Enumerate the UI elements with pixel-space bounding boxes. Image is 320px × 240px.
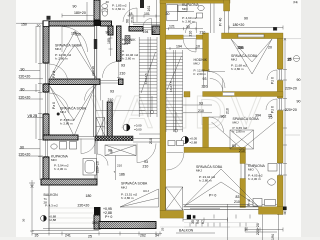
svg-text:MIO: MIO (248, 168, 254, 172)
svg-text:h: 2,60 m: h: 2,60 m (112, 7, 125, 11)
party wall dim line (156, 0, 158, 29)
left exterior wall seg3 (43, 114, 49, 139)
corner box top-left (43, 21, 49, 27)
svg-text:67: 67 (201, 220, 205, 224)
balcony sliding doors bottom (184, 207, 259, 210)
svg-text:210: 210 (198, 109, 204, 113)
svg-text:MKJ: MKJ (55, 47, 62, 51)
top wall right piece (101, 21, 112, 26)
balcony door swing bottom bedroom (185, 169, 259, 206)
right exterior wall seg2 (277, 81, 283, 99)
interior wall top from party (166, 35, 184, 39)
svg-text:194: 194 (143, 30, 149, 34)
svg-text:25: 25 (269, 115, 273, 119)
svg-text:h: 2,30 m: h: 2,30 m (248, 177, 261, 181)
svg-text:210: 210 (120, 72, 126, 76)
svg-text:MKJ: MKJ (122, 42, 129, 46)
right apt bedroom1 door arc (209, 72, 226, 89)
mid horizontal wall (203, 92, 283, 97)
right vertical dim (284, 38, 286, 215)
svg-text:16x17,5: 16x17,5 (144, 73, 148, 84)
corner block top (94, 19, 101, 26)
right wall window arcs (267, 70, 277, 80)
svg-text:MKJ: MKJ (194, 62, 201, 66)
small black squares (47, 16, 51, 20)
svg-text:210: 210 (130, 17, 134, 23)
kupaona top wall left (43, 135, 78, 140)
level marker 2 (181, 136, 188, 143)
right exterior wall seg3 (277, 111, 283, 164)
svg-text:210: 210 (226, 108, 230, 114)
top middle vertical wall (94, 0, 100, 20)
svg-text:161: 161 (147, 6, 151, 12)
svg-text:h: 2,80 m: h: 2,80 m (199, 179, 212, 183)
svg-text:Pr d: Pr d (247, 200, 251, 206)
shaft X bottom (166, 187, 183, 210)
svg-text:180: 180 (92, 221, 98, 225)
kupaona dim line (166, 27, 203, 30)
svg-text:Pz d: Pz d (52, 71, 56, 78)
svg-text:210: 210 (117, 164, 122, 168)
hodnik door arc (102, 61, 118, 77)
svg-text:80: 80 (21, 88, 25, 92)
svg-text:121: 121 (169, 25, 175, 29)
upper horizontal wall (222, 33, 284, 39)
svg-text:10: 10 (152, 30, 156, 34)
svg-text:94: 94 (196, 220, 200, 224)
svg-text:150: 150 (21, 23, 27, 27)
svg-text:MIO: MIO (182, 7, 188, 11)
svg-text:220+20: 220+20 (96, 161, 100, 173)
lower bedroom right thin wall (94, 85, 96, 138)
svg-text:25: 25 (161, 227, 165, 231)
svg-text:Pr 40: Pr 40 (219, 18, 223, 26)
door gap lines mid wall (100, 81, 119, 84)
svg-text:MKJ: MKJ (60, 110, 67, 114)
svg-text:90: 90 (20, 146, 24, 150)
bottom right dim chain (183, 218, 228, 222)
stair arrow right (174, 129, 177, 132)
shaft block (125, 36, 130, 44)
interior wall top right piece (196, 35, 203, 39)
svg-text:93: 93 (203, 77, 207, 81)
door jamb lines (117, 62, 121, 78)
bottom right wall (259, 207, 284, 214)
top right of top (166, 11, 194, 13)
window swing upper right bedroom (231, 39, 272, 74)
gap in mid wall (223, 92, 235, 96)
window swing upper-left bedroom (50, 31, 96, 78)
top-left leader (16, 22, 43, 24)
left margin second chain (35, 26, 37, 139)
svg-text:358: 358 (238, 46, 244, 50)
svg-text:220+20: 220+20 (285, 87, 297, 91)
svg-text:90: 90 (244, 17, 248, 21)
horizontal wall to party wall (129, 27, 143, 32)
lower horizontal wall (184, 147, 246, 152)
closet lines right of kupaona (211, 4, 215, 34)
interior guide lines (49, 22, 94, 24)
window gap 2 lines (44, 93, 49, 114)
right exterior wall seg1 (277, 39, 283, 69)
plus cross balcony (29, 180, 35, 186)
svg-text:MIO: MIO (51, 158, 57, 162)
right leader lines (283, 39, 301, 135)
svg-text:Pz 0: Pz 0 (52, 102, 56, 109)
svg-text:BALKON: BALKON (179, 229, 194, 233)
svg-text:394: 394 (255, 114, 261, 118)
svg-text:220+20: 220+20 (19, 153, 31, 157)
svg-text:Pz 0: Pz 0 (271, 77, 275, 84)
svg-text:34: 34 (155, 234, 159, 238)
bedroom door lines in gap (133, 139, 160, 143)
svg-text:25: 25 (88, 235, 92, 239)
balcony left edge (48, 185, 50, 231)
kupaona tr door arc (186, 22, 197, 33)
svg-text:F4: F4 (294, 1, 298, 5)
svg-text:210: 210 (108, 98, 114, 102)
svg-text:210: 210 (189, 31, 193, 37)
svg-text:220+20: 220+20 (91, 66, 95, 76)
svg-text:90: 90 (106, 31, 110, 35)
wc dim line (128, 2, 132, 26)
svg-text:150: 150 (75, 33, 81, 37)
mid horizontal wall right block (119, 79, 124, 85)
svg-text:10: 10 (196, 45, 200, 49)
svg-text:90: 90 (125, 19, 129, 23)
top exterior wall (43, 21, 94, 26)
level dot lower bedroom (57, 113, 60, 116)
svg-text:MKJ: MKJ (121, 186, 128, 190)
svg-text:16x17,5: 16x17,5 (169, 81, 173, 92)
svg-text:Pz 0: Pz 0 (271, 106, 275, 113)
svg-text:=2,88: =2,88 (190, 141, 198, 145)
svg-text:180+20: 180+20 (233, 23, 245, 27)
balcony level marker (41, 215, 47, 221)
svg-text:210: 210 (239, 149, 245, 153)
svg-text:210: 210 (234, 200, 240, 204)
left exterior wall seg4 (43, 157, 49, 179)
balcony deck lines (50, 208, 95, 228)
svg-text:36: 36 (22, 218, 26, 222)
left wall window arcs (49, 64, 68, 83)
wc sink top middle (102, 4, 108, 9)
window gap lines r2 (278, 99, 282, 111)
door gap lines (183, 36, 196, 38)
lower bedroom door arc (85, 85, 101, 101)
kupaona door arc (97, 154, 109, 166)
top middle dims (62, 14, 94, 18)
svg-text:UCJ: UCJ (143, 189, 149, 193)
right apt mid door arc (210, 79, 223, 92)
svg-text:180: 180 (107, 38, 111, 44)
lattice wall center (95, 136, 133, 141)
top wall (160, 0, 230, 3)
svg-text:h: 2,80 m: h: 2,80 m (121, 196, 134, 200)
left exterior wall seg2 (43, 84, 49, 92)
svg-text:h: 2,30 m: h: 2,30 m (54, 167, 67, 171)
bottom gray strip (0, 237, 320, 240)
top leader x87 (86, 2, 88, 21)
svg-text:262: 262 (140, 234, 146, 238)
svg-text:=0,00: =0,00 (134, 128, 142, 132)
svg-text:20: 20 (268, 46, 272, 50)
wc door arc top middle (123, 8, 137, 22)
bottom dim tick rows (190, 223, 246, 227)
party wall vertical (160, 0, 166, 211)
svg-text:30: 30 (186, 25, 190, 29)
second wc fixtures (140, 0, 144, 8)
bathroom vertical wall seg1 (240, 153, 246, 164)
bottom left vertical dim (30, 185, 34, 232)
corridor hatched partition (107, 102, 112, 138)
svg-text:180+20: 180+20 (74, 11, 86, 15)
svg-text:220+20: 220+20 (256, 223, 260, 235)
wardrobe bottom-center bedroom (105, 145, 136, 156)
svg-text:210: 210 (149, 138, 153, 144)
svg-text:93: 93 (110, 90, 114, 94)
svg-text:90: 90 (73, 5, 77, 9)
kupaona bottom wall (41, 179, 97, 185)
svg-text:210: 210 (200, 30, 206, 34)
window sill bottom right (265, 200, 276, 206)
svg-text:194: 194 (271, 234, 275, 240)
interior vertical wall lower (203, 117, 209, 148)
svg-text:40: 40 (106, 0, 110, 4)
bottom left wall (160, 211, 184, 219)
bottom right bathroom fixtures (268, 179, 276, 185)
door lines in stub gap (225, 11, 229, 33)
svg-text:h: 2,80 m: h: 2,80 m (233, 130, 246, 134)
svg-text:h: 2,60 m: h: 2,60 m (122, 57, 135, 61)
svg-text:210: 210 (143, 164, 149, 168)
wardrobe mid right bedroom (230, 130, 254, 149)
svg-text:220+20: 220+20 (19, 96, 31, 100)
interior vertical wall upper (203, 33, 209, 71)
hodnik2 entry door arc (183, 39, 196, 52)
stair landing line (139, 133, 160, 135)
svg-text:83: 83 (236, 195, 240, 199)
svg-text:93: 93 (121, 64, 125, 68)
svg-text:194: 194 (176, 45, 182, 49)
wc toilet (102, 9, 108, 12)
balcony parapet center (99, 222, 156, 229)
kupaona entry door (78, 137, 95, 140)
svg-text:35: 35 (35, 234, 39, 238)
bottom center pillar (94, 215, 100, 229)
door gap (204, 71, 208, 88)
top corner vertical stub (224, 0, 230, 11)
left stair diagonal (141, 52, 156, 93)
svg-text:25: 25 (288, 57, 292, 61)
left stair (139, 37, 157, 117)
kupaona east thin wall (95, 137, 97, 179)
bedroom door arc (137, 144, 156, 163)
svg-text:MKJ: MKJ (231, 58, 238, 62)
bathroom door gap (241, 164, 245, 179)
window gap lines r3 (278, 164, 282, 176)
right apt lower hall arc (209, 117, 224, 132)
bottom dim line right (228, 204, 278, 240)
left kupaona fixtures (51, 144, 57, 149)
svg-text:101: 101 (144, 12, 150, 16)
svg-text:h: 2,80 m: h: 2,80 m (231, 67, 244, 71)
bathroom vertical wall seg2 (240, 179, 246, 208)
right exterior wall seg4 (277, 176, 283, 215)
svg-text:186: 186 (119, 173, 125, 177)
mid horizontal wall left part (49, 79, 100, 85)
svg-text:h: 2,60 m: h: 2,60 m (182, 20, 195, 24)
left gray margin (0, 0, 16, 240)
bottom dim line (32, 233, 162, 235)
dim lines hall doors (183, 105, 212, 113)
svg-text:35: 35 (191, 220, 195, 224)
bedroom1 door arc (62, 27, 88, 53)
svg-text:90: 90 (297, 100, 301, 104)
window swing mid right bedroom (212, 122, 276, 149)
window in top wall (238, 34, 264, 37)
hall door arc into bottom bedroom (167, 153, 185, 171)
svg-text:220+20: 220+20 (19, 75, 31, 79)
svg-text:90: 90 (21, 68, 25, 72)
top right dims (229, 26, 283, 30)
svg-text:90: 90 (297, 78, 301, 82)
svg-text:MKJ: MKJ (233, 121, 240, 125)
svg-text:210: 210 (202, 85, 208, 89)
ucj triangle (120, 189, 159, 207)
svg-text:241: 241 (65, 234, 71, 238)
bottom black dot (94, 207, 101, 215)
svg-text:93: 93 (199, 101, 203, 105)
svg-text:P+ 0: P+ 0 (105, 215, 112, 219)
window gap 1 lines (44, 64, 49, 84)
svg-text:90: 90 (108, 149, 112, 153)
level marker 1 (123, 124, 130, 131)
svg-text:18: 18 (129, 12, 133, 16)
left exterior wall seg1 (43, 21, 49, 63)
svg-text:93: 93 (144, 160, 148, 164)
window gap 3 lines (44, 140, 49, 157)
svg-text:P: 4,3 m2: P: 4,3 m2 (45, 204, 58, 208)
extra tick marks bottom chain (32, 232, 160, 236)
svg-text:=2,88: =2,88 (49, 218, 57, 222)
short vertical below top wall (108, 26, 113, 35)
small yellow stub (184, 92, 190, 98)
svg-text:180: 180 (86, 194, 92, 198)
shaft boxes corridor (96, 118, 105, 137)
svg-text:P= 0: P= 0 (209, 194, 216, 198)
kupaona tr bathtub (167, 4, 178, 21)
right margin ticks (284, 38, 286, 214)
svg-text:h: 2,80 m: h: 2,80 m (55, 57, 68, 61)
small rects below stair (168, 141, 175, 146)
svg-text:MKJ: MKJ (196, 169, 203, 173)
svg-text:30: 30 (166, 12, 170, 16)
left vertical dim line (39, 26, 41, 180)
right stair (166, 50, 183, 132)
svg-text:h: 2,60 m: h: 2,60 m (194, 72, 207, 76)
window gap lines r1 (278, 70, 282, 81)
bathroom br door arc (246, 164, 261, 179)
balcony bottom lines (32, 229, 99, 231)
V lines lower-left bedroom (50, 87, 95, 137)
upper bedroom right thin wall (95, 26, 97, 79)
svg-text:83: 83 (232, 144, 236, 148)
svg-text:220+20: 220+20 (78, 203, 90, 207)
left margin text underlines (19, 71, 43, 156)
svg-text:220+20: 220+20 (285, 108, 297, 112)
svg-text:h: 2,80 m: h: 2,80 m (60, 122, 73, 126)
hodnik vertical wall upper (117, 26, 122, 61)
right gray margin (301, 0, 320, 240)
stair arrow left (150, 110, 153, 113)
